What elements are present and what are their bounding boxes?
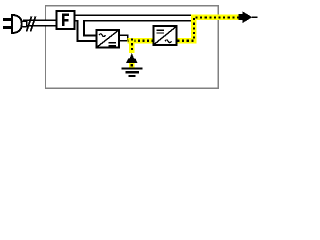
converter U2 (DC/AC): [154, 26, 177, 45]
converter U1 (AC/DC): [97, 30, 120, 48]
PE chain wire down to earth: [129, 38, 135, 53]
PE chain link above earth symbol: [129, 63, 134, 68]
enclosure box: [46, 6, 219, 88]
plug P1: [3, 15, 27, 34]
output arrow: [239, 11, 258, 23]
PE chain wire U1 to U2: [128, 38, 154, 44]
wire U1 output stub: [119, 35, 128, 41]
wire top run from fuse to output junction: [75, 15, 193, 21]
fuse F: [57, 11, 75, 29]
cable break slashes: [27, 17, 36, 32]
earth terminal arrow: [126, 53, 138, 63]
mains cord from plug to fuse: [24, 20, 57, 25]
PE chain wire U2 to output arrow: [177, 17, 241, 40]
wire branch from top run down to converter U1: [78, 20, 97, 41]
earth ground symbol: [121, 69, 142, 77]
